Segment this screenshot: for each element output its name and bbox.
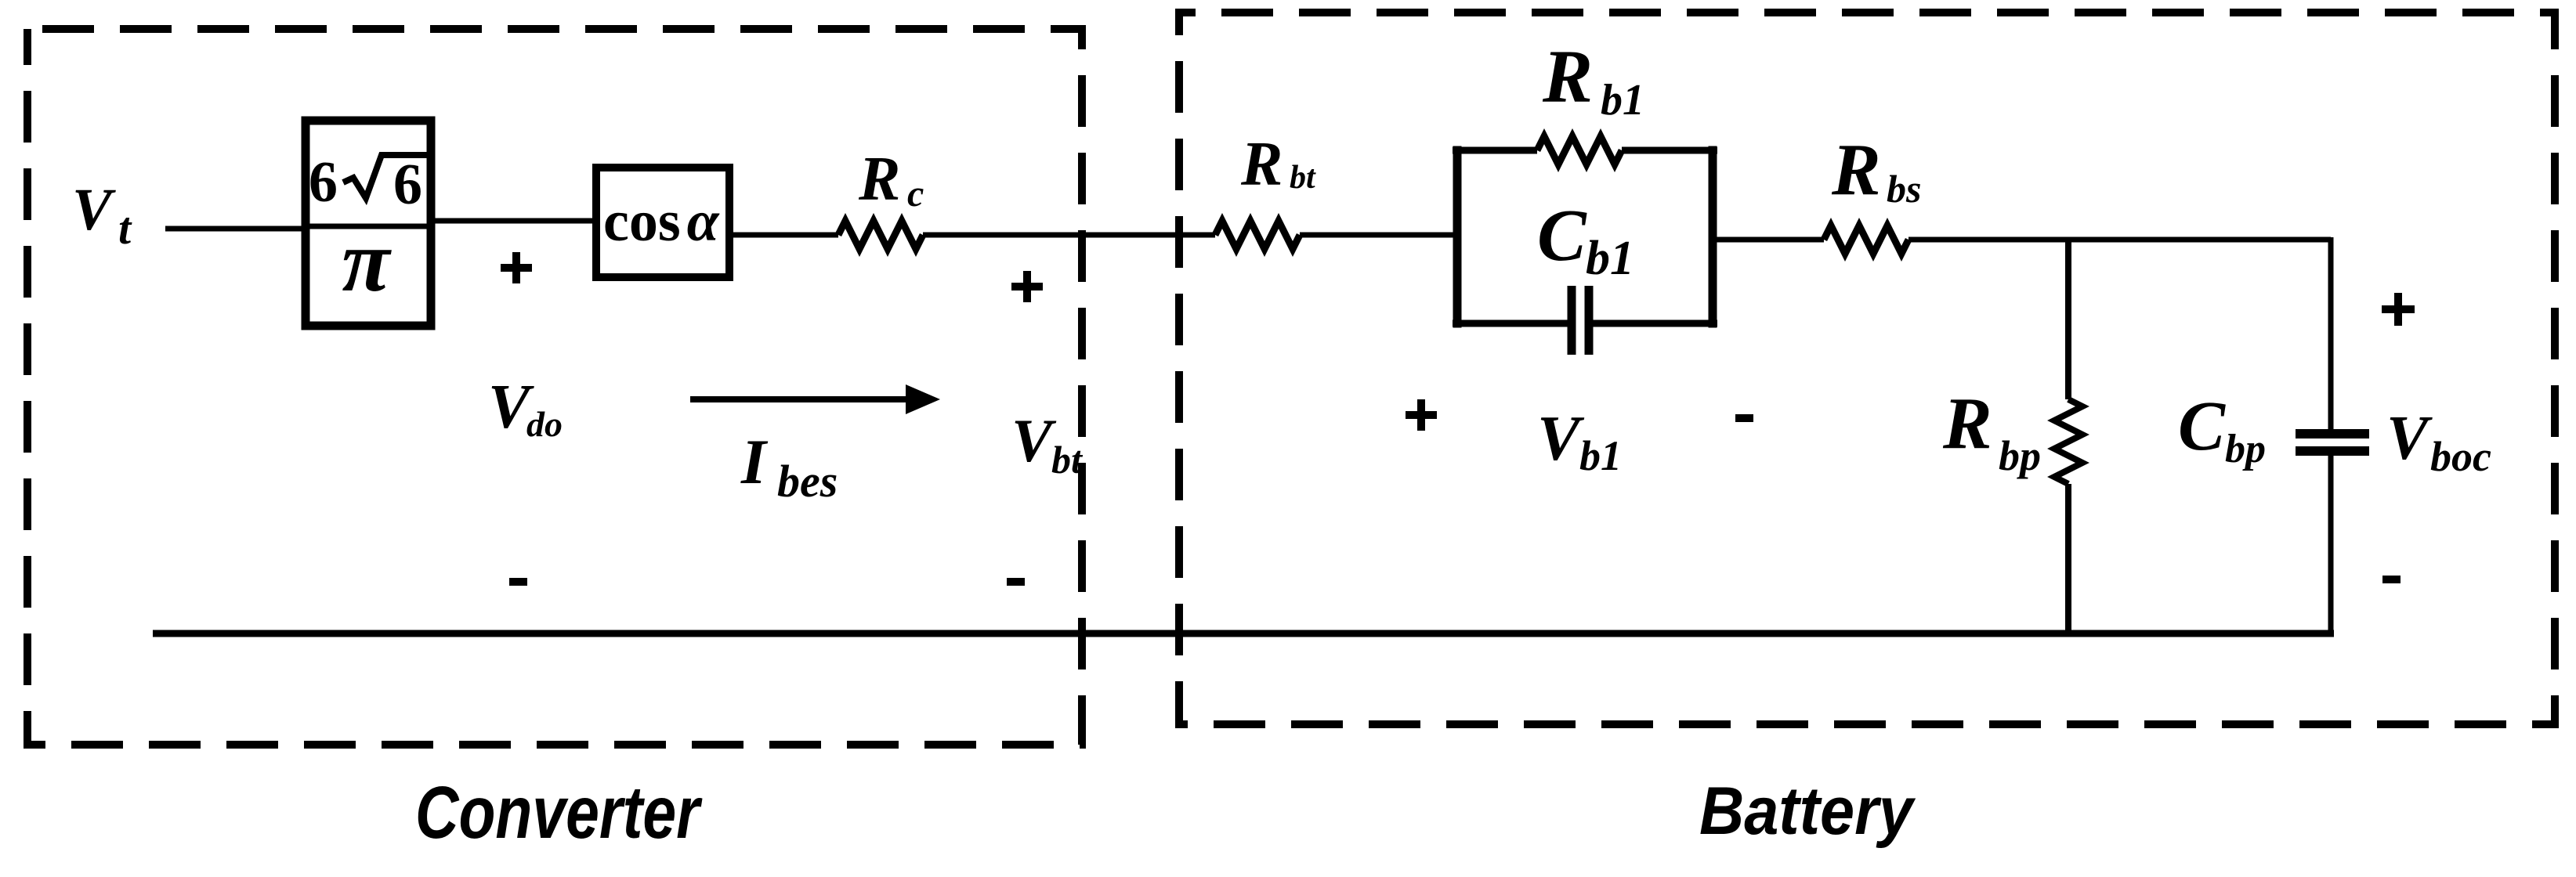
svg-text:b1: b1: [1586, 232, 1634, 285]
svg-text:b1: b1: [1601, 76, 1644, 125]
svg-text:do: do: [526, 404, 563, 444]
svg-text:I: I: [740, 426, 769, 497]
svg-text:bt: bt: [1051, 438, 1084, 482]
svg-text:b1: b1: [1579, 432, 1622, 479]
svg-text:cosα: cosα: [603, 189, 720, 254]
svg-text:V: V: [2386, 404, 2433, 473]
svg-text:V: V: [1011, 406, 1057, 475]
svg-text:V: V: [72, 177, 116, 243]
svg-text:R: R: [858, 145, 900, 214]
svg-text:R: R: [1831, 129, 1881, 211]
svg-text:Converter: Converter: [415, 771, 703, 854]
svg-text:boc: boc: [2430, 433, 2491, 480]
svg-text:V: V: [1537, 402, 1585, 474]
svg-text:bt: bt: [1290, 160, 1316, 196]
svg-text:bp: bp: [1999, 432, 2041, 479]
svg-text:R: R: [1942, 383, 1992, 464]
svg-text:bp: bp: [2225, 427, 2266, 471]
svg-text:t: t: [118, 203, 132, 254]
svg-text:bes: bes: [777, 456, 838, 507]
svg-text:R: R: [1240, 130, 1283, 199]
svg-text:π: π: [342, 213, 392, 310]
svg-text:Battery: Battery: [1699, 774, 1916, 849]
svg-text:bs: bs: [1887, 167, 1921, 211]
svg-text:C: C: [1537, 195, 1587, 276]
svg-text:c: c: [907, 173, 924, 215]
svg-text:R: R: [1542, 34, 1593, 118]
svg-text:6: 6: [393, 153, 422, 217]
svg-text:C: C: [2178, 388, 2226, 465]
svg-text:6: 6: [309, 150, 338, 215]
